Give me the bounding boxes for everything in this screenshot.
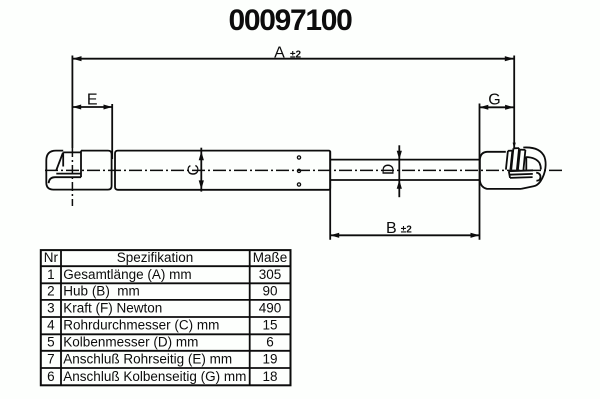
left fitting bracket diagonal [56,153,63,170]
right fitting clip plate 2 right edge [517,148,519,170]
right fitting clip plate 3 right edge [523,150,525,170]
left fitting ledge step [49,177,81,183]
left end fitting outer body [46,151,111,190]
svg-text:15: 15 [262,318,277,333]
left fitting bracket right edge [80,151,82,178]
svg-text:Kraft (F) Newton: Kraft (F) Newton [63,300,162,315]
cylinder tube [115,151,330,190]
dimension G line [480,106,514,108]
tube vent hole middle [297,169,300,172]
svg-text:A: A [274,45,285,62]
svg-text:Nr: Nr [44,250,59,265]
left fitting bracket lower flange [56,173,81,175]
right fitting hook outer curve [521,147,546,188]
table row line 5 [41,350,291,352]
svg-text:18: 18 [262,369,277,384]
right fitting clip plate 3 top cap [520,149,525,151]
extension line G left / B right (shared) [479,104,481,240]
dimension G left arrow [480,105,489,110]
right fitting shelf bottom [510,176,533,179]
right fitting hook end blob [536,173,540,181]
right end fitting body [480,152,521,189]
dimension A left arrow [73,56,82,61]
right fitting clip plate 1 left edge [506,151,508,170]
svg-text:19: 19 [262,351,277,366]
svg-text:490: 490 [259,300,282,315]
dimension A right arrow [505,56,514,61]
svg-text:Kolbenmesser (D) mm: Kolbenmesser (D) mm [63,335,198,350]
right fitting clip plate 1 right edge [510,151,512,170]
table row line 2 [41,299,291,301]
right fitting clip plate 2 top cap [513,147,519,149]
right fitting shelf top [509,169,533,172]
svg-text:D: D [381,164,398,175]
right fitting clip inner edge [525,157,527,172]
svg-text:Anschluß Rohrseitig (E) mm: Anschluß Rohrseitig (E) mm [63,351,232,366]
svg-text:1: 1 [47,267,55,282]
extension line right end tick [513,143,516,149]
svg-text:B: B [386,220,397,237]
piston rod bottom edge [330,179,480,181]
extension line B left (tube end edge extended) [329,151,331,240]
piston rod top edge [330,159,480,161]
table column line Spezifikation/Masse [249,250,251,385]
right fitting shelf middle [509,173,532,176]
dimension G right arrow [505,105,514,110]
dimension B line [330,234,479,236]
dimension B left arrow [330,233,339,238]
tube vent hole bottom [297,183,300,186]
svg-text:Anschluß Kolbenseitig (G) mm: Anschluß Kolbenseitig (G) mm [63,369,246,384]
svg-text:90: 90 [262,284,277,299]
dimension A line [73,58,514,60]
dimension B right arrow [471,233,480,238]
right fitting clip plate 2 left edge [511,148,513,170]
svg-text:Maße: Maße [253,250,288,265]
dimension D top arrow [397,151,402,160]
table row line 6 [41,367,291,369]
dimension E line [72,106,112,108]
svg-text:2: 2 [47,284,55,299]
svg-text:7: 7 [47,351,55,366]
dimension E right arrow [104,105,113,110]
extension line left (A/E shared) [71,56,73,149]
vertical centerline of left eyelet [71,148,73,206]
dimension C bottom arrow [199,180,204,189]
table row line header bottom [41,265,291,267]
svg-text:Spezifikation: Spezifikation [117,250,194,265]
dimension C top arrow [199,151,204,160]
table row line 4 [41,333,291,335]
table outer border [41,250,291,385]
dimension D bottom arrow [397,180,402,189]
tube vent hole top [297,156,300,159]
table row line 3 [41,316,291,318]
svg-text:305: 305 [259,267,282,282]
right fitting clip plate 3 left edge [518,150,520,170]
svg-text:Gesamtlänge (A) mm: Gesamtlänge (A) mm [63,267,191,282]
svg-text:E: E [87,92,98,109]
left fitting bracket top plate [63,151,81,153]
dimension E left arrow [72,105,81,110]
right fitting shelf left cap [509,171,510,178]
left fitting bracket plate left edge [62,152,64,166]
table row line 1 [41,282,291,284]
dimension C line [200,148,202,192]
svg-text:±2: ±2 [401,224,412,235]
svg-text:±2: ±2 [290,50,301,61]
svg-text:6: 6 [47,369,55,384]
svg-text:4: 4 [47,318,55,333]
dimension D line [398,145,400,197]
svg-text:3: 3 [47,300,55,315]
table column line Nr/Spezifikation [60,250,62,385]
svg-text:6: 6 [266,335,274,350]
svg-text:Rohrdurchmesser (C) mm: Rohrdurchmesser (C) mm [63,318,219,333]
horizontal centerline of gas spring axis [45,169,564,171]
svg-text:00097100: 00097100 [228,4,352,37]
right fitting clip plate 1 top cap [508,150,513,152]
svg-text:G: G [488,92,500,109]
svg-text:5: 5 [47,335,55,350]
svg-text:Hub (B) mm: Hub (B) mm [63,284,140,299]
svg-text:C: C [185,164,202,175]
extension line E right [111,104,113,159]
right fitting hook inner curve [526,157,541,170]
extension line right (A/G shared) [513,56,515,149]
